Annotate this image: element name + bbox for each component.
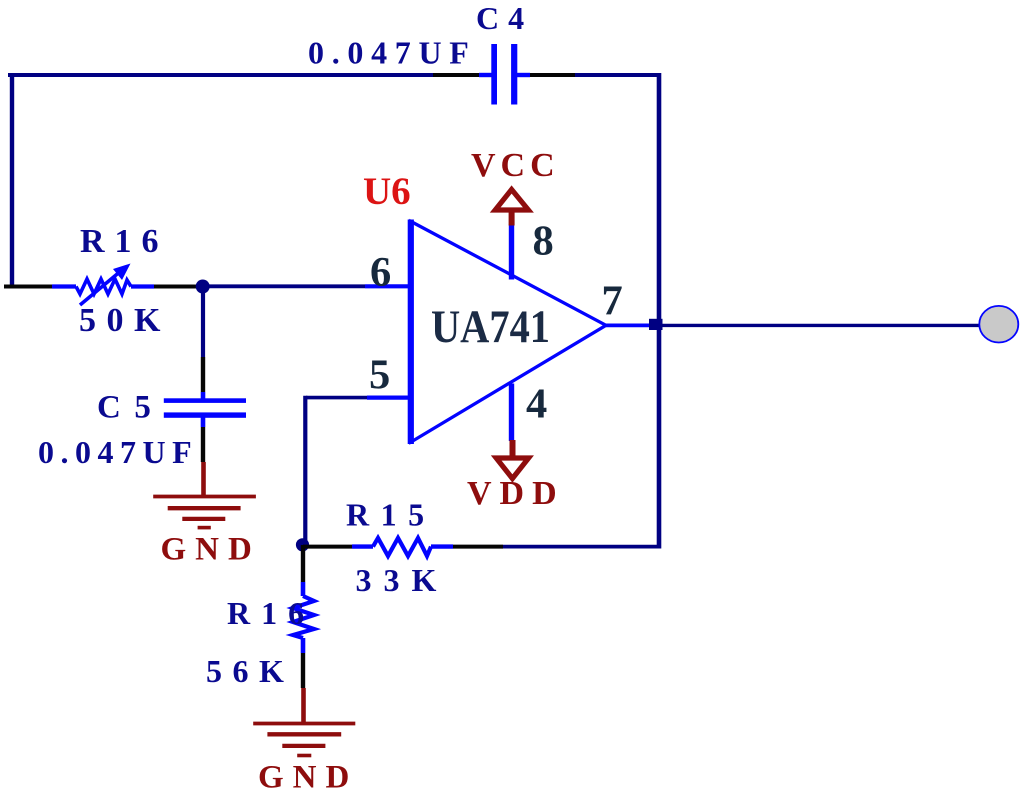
node output terminal [979,306,1018,343]
wire right rail vertical [657,73,662,549]
wire left rail vertical [10,73,14,288]
power VDD arrow [496,440,528,479]
wire pin5 vertical down [303,396,307,545]
pin number 8 [533,218,554,265]
label GND (bottom) [258,760,358,793]
svg-text:50K: 50K [79,302,171,339]
resistor R16 (56K) [293,545,314,688]
resistor R16 potentiometer [4,264,197,306]
label C5 [97,390,164,426]
ground (C5) [153,497,256,528]
label 0.047UF (C4) [308,35,477,71]
wire top left horizontal [8,73,433,77]
node junction R15/R16 [296,538,309,551]
pin 8 [509,225,514,280]
label R15 [346,497,436,533]
svg-text:7: 7 [602,278,623,325]
svg-text:VDD: VDD [467,475,565,512]
label R16 (56K) [227,595,315,631]
svg-text:33K: 33K [356,562,449,598]
op-amp U6 UA741 [411,220,606,445]
pin number 6 [370,249,391,296]
label VDD [467,475,565,512]
pin number 4 [526,381,547,428]
power VCC arrow [495,190,528,226]
svg-text:8: 8 [533,218,554,265]
svg-text:VCC: VCC [471,147,560,184]
wire R16 to ground [301,688,306,723]
svg-text:GND: GND [161,532,261,568]
wire C5 to ground [201,462,206,496]
wire R15 to right rail [503,545,659,549]
label R16 (pot) [80,223,169,260]
ground (bottom) [253,724,355,756]
wire output to terminal [661,324,979,327]
node junction pot/pin6/C5 [196,280,210,294]
svg-text:R15: R15 [346,497,436,533]
label U6 [363,170,411,213]
label 33K [356,562,449,598]
pin 5 [367,396,410,400]
capacitor C4 [433,44,575,105]
wire pin5 horizontal [306,396,367,400]
svg-text:5: 5 [369,352,390,399]
capacitor C5 [164,357,246,462]
label GND (C5) [161,532,261,568]
wire top right horizontal [575,73,661,77]
wire junction to pin 6 [197,284,365,288]
label 50K [79,302,171,339]
label UA741 [431,301,550,353]
svg-text:U6: U6 [363,170,411,213]
svg-text:R16: R16 [80,223,169,260]
svg-text:56K: 56K [206,653,294,689]
pin 6 [365,284,410,288]
label C4 [476,0,533,36]
pin 7 output [606,323,651,327]
label 56K [206,653,294,689]
svg-text:6: 6 [370,249,391,296]
svg-text:R16: R16 [227,595,315,631]
svg-text:0.047UF: 0.047UF [308,35,477,71]
wire junction down to C5 [201,287,205,358]
svg-text:C4: C4 [476,0,533,36]
svg-text:4: 4 [526,381,547,428]
node output junction [649,319,663,330]
label VCC [471,147,560,184]
label 0.047UF (C5) [38,434,198,470]
pin number 7 [602,278,623,325]
svg-text:C5: C5 [97,390,164,426]
svg-text:GND: GND [258,760,358,793]
pin 4 [509,384,514,442]
pin number 5 [369,352,390,399]
svg-text:0.047UF: 0.047UF [38,434,198,470]
svg-text:UA741: UA741 [431,301,550,353]
resistor R15 [303,538,503,556]
